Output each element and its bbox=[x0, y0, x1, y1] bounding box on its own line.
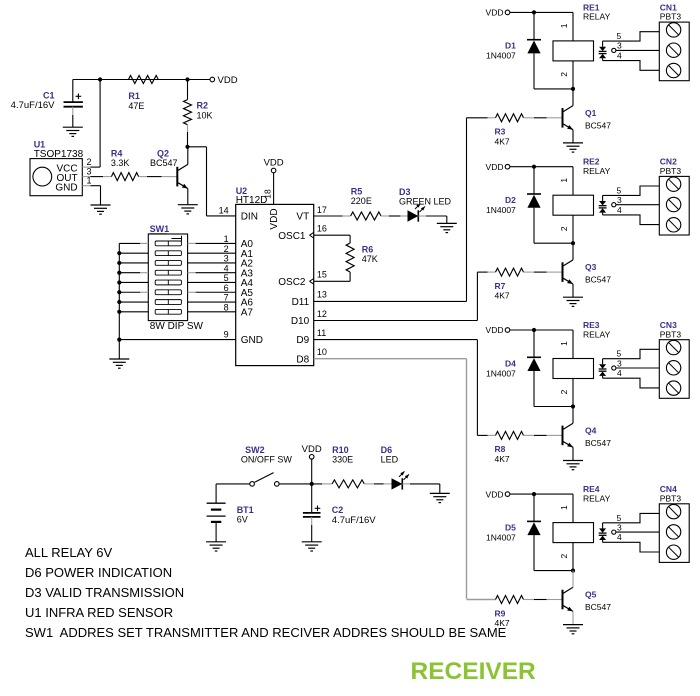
node VDD junction D diode bbox=[532, 165, 536, 169]
switch element SW1-2 bbox=[155, 251, 181, 256]
wire Q5 emitter to ground bbox=[572, 611, 574, 624]
wire Q2 collector bbox=[187, 147, 189, 165]
svg-text:15: 15 bbox=[317, 270, 327, 280]
svg-text:OSC2: OSC2 bbox=[278, 277, 306, 288]
svg-text:U1: U1 bbox=[34, 140, 46, 150]
terminal VDD power bbox=[309, 455, 314, 460]
svg-text:4: 4 bbox=[617, 368, 622, 378]
wire SW1 row 6 left bbox=[119, 291, 140, 293]
svg-text:DIN: DIN bbox=[241, 212, 258, 223]
wire contact pin 5 bbox=[603, 186, 660, 195]
IC U1 TSOP1738 sensor bbox=[30, 159, 82, 196]
svg-text:D11: D11 bbox=[292, 297, 310, 308]
wire Q4 emitter to ground bbox=[572, 447, 574, 460]
wire SW2 to VDD node bbox=[279, 483, 322, 485]
switch element SW1-3 bbox=[155, 261, 181, 266]
resistor R10 330E bbox=[322, 483, 332, 485]
svg-text:4K7: 4K7 bbox=[495, 291, 510, 301]
svg-text:6: 6 bbox=[224, 283, 229, 293]
wire SW1 row 6 to A5 bbox=[188, 291, 196, 293]
wire Q4 collector bbox=[572, 407, 574, 424]
svg-text:BC547: BC547 bbox=[585, 438, 611, 448]
svg-text:R9: R9 bbox=[495, 608, 506, 618]
relay RE3 coil bbox=[553, 359, 594, 379]
screw terminal 2 of CN4 bbox=[666, 525, 680, 539]
svg-text:1N4007: 1N4007 bbox=[486, 368, 516, 378]
capacitor C2 bbox=[311, 484, 313, 513]
svg-text:7: 7 bbox=[224, 293, 229, 303]
wire contact pin 5 bbox=[603, 513, 660, 522]
LED D6 power indicator bbox=[384, 483, 392, 485]
pin 3 OUT wire of U1 bbox=[82, 176, 90, 178]
svg-text:D2: D2 bbox=[505, 195, 516, 205]
terminal VDD pin 18 bbox=[271, 168, 276, 173]
svg-text:47E: 47E bbox=[128, 101, 144, 111]
relay RE4 contact arrows bbox=[602, 523, 604, 529]
svg-text:SW1 ADDRES SET TRANSMITTER AN: SW1 ADDRES SET TRANSMITTER AND RECIVER A… bbox=[25, 625, 507, 640]
resistor R5 bbox=[351, 212, 381, 220]
svg-text:10: 10 bbox=[317, 347, 327, 357]
svg-text:RELAY: RELAY bbox=[583, 493, 611, 503]
svg-text:220E: 220E bbox=[351, 196, 372, 206]
ground Q1 bbox=[563, 142, 583, 144]
svg-text:A7: A7 bbox=[241, 307, 254, 318]
resistor R4 bbox=[103, 176, 111, 178]
relay RE2 contact arrows bbox=[602, 195, 604, 201]
wire VDD to relay RE2 bbox=[510, 166, 573, 168]
wire VDD to relay RE3 bbox=[510, 329, 573, 331]
svg-text:VDD: VDD bbox=[218, 75, 238, 86]
switch SW2 ON/OFF bbox=[250, 482, 255, 487]
svg-text:3.3K: 3.3K bbox=[111, 158, 130, 168]
svg-text:ALL RELAY 6V: ALL RELAY 6V bbox=[25, 545, 113, 560]
svg-text:5: 5 bbox=[617, 31, 622, 41]
svg-text:Q2: Q2 bbox=[157, 148, 169, 158]
screw terminal 3 of CN4 bbox=[666, 545, 680, 559]
wire contact pin 4 bbox=[603, 215, 660, 225]
wire Q1 emitter to ground bbox=[572, 130, 574, 143]
svg-text:1: 1 bbox=[86, 175, 91, 185]
wire SW1 row 4 left bbox=[119, 272, 140, 274]
wire contact pin 3 bbox=[616, 204, 659, 206]
wire Q3 collector bbox=[572, 243, 574, 260]
svg-text:BC547: BC547 bbox=[150, 158, 178, 168]
wire SW1 row 1 left bbox=[119, 242, 140, 244]
svg-text:BT1: BT1 bbox=[237, 505, 254, 515]
svg-text:D1: D1 bbox=[505, 41, 516, 51]
svg-text:4.7uF/16V: 4.7uF/16V bbox=[332, 515, 376, 526]
svg-text:4: 4 bbox=[617, 51, 622, 61]
svg-text:R6: R6 bbox=[362, 245, 374, 255]
svg-text:330E: 330E bbox=[332, 455, 353, 465]
svg-text:PBT3: PBT3 bbox=[660, 166, 682, 176]
wire SW1 row 8 left bbox=[119, 311, 148, 313]
node junction R2 branch bbox=[185, 77, 189, 81]
LED D3 green bbox=[400, 215, 407, 217]
transistor Q2 BC547 bbox=[176, 167, 178, 187]
switch element SW1-4 bbox=[155, 270, 181, 275]
ground Q5 bbox=[563, 624, 583, 626]
wire D3 cathode to ground bbox=[418, 215, 426, 217]
transistor Q4 BC547 bbox=[562, 426, 564, 446]
wire Q3 emitter to ground bbox=[572, 284, 574, 297]
wire Q5 collector bbox=[572, 571, 574, 588]
capacitor C1 bbox=[72, 80, 74, 103]
wire top VDD rail bbox=[73, 79, 210, 81]
svg-text:D3: D3 bbox=[399, 187, 411, 197]
svg-text:R3: R3 bbox=[495, 127, 506, 137]
battery BT1 6V bbox=[215, 484, 217, 503]
diode D2 1N4007 bbox=[533, 167, 535, 194]
svg-text:3: 3 bbox=[617, 195, 622, 205]
svg-text:Q1: Q1 bbox=[585, 108, 597, 118]
relay RE2 coil bbox=[553, 195, 594, 215]
svg-text:VDD: VDD bbox=[302, 444, 322, 455]
node bus GND junction bbox=[117, 338, 121, 342]
svg-text:1: 1 bbox=[559, 341, 569, 346]
svg-text:TSOP1738: TSOP1738 bbox=[34, 149, 84, 160]
wire SW1 row 3 to A2 bbox=[188, 262, 236, 264]
wire contact pin 4 bbox=[603, 542, 660, 552]
wire SW1 row 8 to A7 bbox=[188, 311, 236, 313]
svg-text:D5: D5 bbox=[505, 522, 516, 532]
svg-text:SW2: SW2 bbox=[245, 445, 265, 455]
svg-text:BC547: BC547 bbox=[585, 602, 611, 612]
relay contact common terminal bbox=[612, 530, 616, 534]
ground D6 bbox=[430, 492, 450, 494]
svg-text:R2: R2 bbox=[197, 101, 209, 111]
wire D10 pin 12 to R7 bbox=[314, 320, 478, 322]
diode D5 1N4007 bbox=[533, 494, 535, 521]
wire D6 cathode to ground bbox=[402, 483, 410, 485]
resistor R7 4K7 bbox=[477, 271, 487, 273]
svg-text:C1: C1 bbox=[43, 90, 55, 100]
node VDD junction D diode bbox=[532, 328, 536, 332]
wire Q1 collector bbox=[572, 89, 574, 106]
screw terminal 3 of CN3 bbox=[666, 381, 680, 395]
wire VDD to relay RE1 bbox=[510, 11, 573, 13]
svg-text:R7: R7 bbox=[495, 281, 506, 291]
svg-text:4: 4 bbox=[617, 532, 622, 542]
svg-text:VDD: VDD bbox=[264, 158, 284, 169]
svg-text:RELAY: RELAY bbox=[583, 166, 611, 176]
wire contact pin 3 bbox=[616, 531, 659, 533]
svg-text:4: 4 bbox=[617, 205, 622, 215]
svg-text:47K: 47K bbox=[362, 254, 378, 264]
wire SW1 row 7 left bbox=[119, 301, 148, 303]
wire contact pin 5 bbox=[603, 32, 660, 41]
svg-text:4.7uF/16V: 4.7uF/16V bbox=[11, 100, 55, 111]
svg-text:3: 3 bbox=[224, 254, 229, 264]
switch element SW1-8 bbox=[155, 309, 181, 314]
transistor Q1 BC547 bbox=[562, 108, 564, 128]
svg-text:R1: R1 bbox=[128, 91, 140, 101]
wire contact pin 4 bbox=[603, 378, 660, 388]
svg-text:1N4007: 1N4007 bbox=[486, 51, 516, 61]
wire D8 pin 10 to R9 bbox=[314, 358, 467, 360]
svg-text:1: 1 bbox=[559, 23, 569, 28]
svg-text:3: 3 bbox=[617, 41, 622, 51]
wire contact pin 5 bbox=[603, 349, 660, 358]
wire contact pin 3 bbox=[616, 367, 659, 369]
svg-text:13: 13 bbox=[317, 290, 327, 300]
svg-text:PBT3: PBT3 bbox=[660, 12, 682, 22]
ground BT1 bbox=[206, 541, 226, 543]
relay contact common terminal bbox=[612, 48, 616, 52]
node junction C1/U1 branch bbox=[98, 77, 102, 81]
ground Q2 bbox=[178, 204, 198, 206]
svg-text:PBT3: PBT3 bbox=[660, 329, 682, 339]
svg-text:5: 5 bbox=[224, 273, 229, 283]
node VDD junction D diode bbox=[532, 492, 536, 496]
svg-text:VDD: VDD bbox=[269, 208, 280, 229]
svg-text:BC547: BC547 bbox=[585, 275, 611, 285]
svg-text:2: 2 bbox=[559, 226, 569, 231]
node relay pin2 junction bbox=[571, 569, 575, 573]
svg-text:8: 8 bbox=[224, 302, 229, 312]
pin 2 VCC wire of U1 bbox=[82, 166, 90, 168]
screw terminal 2 of CN2 bbox=[666, 197, 680, 211]
wire contact pin 4 bbox=[603, 61, 660, 71]
svg-text:SW1: SW1 bbox=[150, 224, 170, 234]
svg-text:10K: 10K bbox=[197, 110, 213, 120]
relay contact common terminal bbox=[612, 203, 616, 207]
svg-text:2: 2 bbox=[224, 244, 229, 254]
svg-text:GREEN LED: GREEN LED bbox=[399, 197, 452, 207]
svg-text:5: 5 bbox=[617, 513, 622, 523]
screw terminal 3 of CN2 bbox=[666, 218, 680, 232]
wire VDD to relay RE4 bbox=[510, 493, 573, 495]
svg-text:2: 2 bbox=[559, 553, 569, 558]
svg-text:1: 1 bbox=[559, 505, 569, 510]
svg-text:4K7: 4K7 bbox=[495, 454, 510, 464]
ground D3 bbox=[437, 222, 457, 224]
svg-text:R8: R8 bbox=[495, 444, 506, 454]
resistor R1 bbox=[128, 76, 158, 84]
node relay pin2 junction bbox=[571, 404, 575, 408]
ground C2 bbox=[302, 541, 322, 543]
svg-text:4K7: 4K7 bbox=[495, 136, 510, 146]
svg-text:12: 12 bbox=[317, 309, 327, 319]
wire D9 pin 11 to R8 bbox=[314, 339, 478, 341]
svg-text:R5: R5 bbox=[351, 186, 363, 196]
svg-text:BC547: BC547 bbox=[585, 120, 611, 130]
svg-text:8W DIP SW: 8W DIP SW bbox=[150, 321, 204, 332]
screw terminal 1 of CN3 bbox=[666, 340, 680, 354]
wire Q2 emitter to ground bbox=[187, 189, 189, 205]
switch element SW1-7 bbox=[155, 300, 181, 305]
svg-text:RELAY: RELAY bbox=[583, 12, 611, 22]
wire D11 pin 13 to R3 bbox=[314, 300, 467, 302]
terminal VDD top-left bbox=[210, 77, 215, 82]
node VDD junction D diode bbox=[532, 10, 536, 14]
svg-text:VT: VT bbox=[296, 212, 309, 223]
wire SW1 row 7 to A6 bbox=[188, 301, 236, 303]
wire SW1 row 3 left bbox=[119, 262, 148, 264]
wire VT pin 17 bbox=[314, 215, 343, 217]
screw terminal 3 of CN1 bbox=[666, 63, 680, 77]
screw terminal 1 of CN2 bbox=[666, 177, 680, 191]
ground Q3 bbox=[563, 296, 583, 298]
diode D4 1N4007 bbox=[533, 330, 535, 357]
svg-text:R10: R10 bbox=[332, 445, 349, 455]
svg-text:VDD: VDD bbox=[486, 162, 504, 172]
wire BT1 to SW2 bbox=[216, 483, 250, 485]
pin 1 GND wire of U1 bbox=[82, 185, 90, 187]
diode D1 1N4007 bbox=[533, 12, 535, 39]
svg-text:Q3: Q3 bbox=[585, 262, 597, 272]
svg-text:18: 18 bbox=[263, 189, 273, 199]
svg-text:OSC1: OSC1 bbox=[278, 231, 306, 242]
svg-text:11: 11 bbox=[317, 328, 326, 338]
svg-text:3: 3 bbox=[617, 522, 622, 532]
svg-text:D3 VALID TRANSMISSION: D3 VALID TRANSMISSION bbox=[25, 585, 184, 600]
svg-text:1N4007: 1N4007 bbox=[486, 532, 516, 542]
svg-text:17: 17 bbox=[317, 205, 327, 215]
svg-text:Q4: Q4 bbox=[585, 426, 597, 436]
wire SW1 ground bus bbox=[118, 243, 120, 359]
wire GND pin 9 of U2 bbox=[119, 339, 235, 341]
switch element SW1-6 bbox=[155, 290, 181, 295]
ground Q4 bbox=[563, 460, 583, 462]
ground SW1 bus bbox=[109, 358, 129, 360]
svg-text:1: 1 bbox=[559, 178, 569, 183]
switch element SW1-5 bbox=[155, 280, 181, 285]
wire C1 to ground bbox=[72, 107, 74, 115]
svg-text:1N4007: 1N4007 bbox=[486, 205, 516, 215]
screw terminal 1 of CN1 bbox=[666, 23, 680, 37]
svg-text:D4: D4 bbox=[505, 358, 516, 368]
wire SW1 row 2 to A1 bbox=[188, 252, 236, 254]
node VDD junction power bbox=[310, 482, 314, 486]
wire contact pin 3 bbox=[616, 49, 659, 51]
svg-text:RELAY: RELAY bbox=[583, 329, 611, 339]
svg-text:LED: LED bbox=[381, 455, 399, 465]
transistor Q5 BC547 bbox=[562, 590, 564, 610]
svg-text:6V: 6V bbox=[237, 515, 248, 525]
svg-text:VDD: VDD bbox=[486, 325, 504, 335]
switch element SW1-1 bbox=[155, 241, 181, 246]
svg-text:VDD: VDD bbox=[486, 489, 504, 499]
resistor R8 4K7 bbox=[477, 434, 487, 436]
resistor R3 4K7 bbox=[467, 117, 488, 119]
relay RE1 coil bbox=[553, 41, 594, 61]
IC U2 HT12D decoder bbox=[236, 204, 314, 365]
svg-text:RECEIVER: RECEIVER bbox=[411, 658, 537, 685]
wire Q2 collector to DIN pin 14 bbox=[188, 146, 207, 148]
svg-text:C2: C2 bbox=[332, 505, 344, 515]
svg-text:3: 3 bbox=[617, 358, 622, 368]
svg-text:D9: D9 bbox=[296, 335, 309, 346]
resistor R2 bbox=[187, 80, 189, 100]
node relay pin2 junction bbox=[571, 87, 575, 91]
svg-text:1: 1 bbox=[224, 234, 229, 244]
relay RE4 coil bbox=[553, 523, 594, 543]
svg-text:9: 9 bbox=[224, 330, 229, 340]
wire SW1 row 5 left bbox=[119, 281, 148, 283]
svg-text:4: 4 bbox=[224, 263, 229, 273]
svg-text:Q5: Q5 bbox=[585, 590, 597, 600]
svg-text:5: 5 bbox=[617, 349, 622, 359]
svg-text:R4: R4 bbox=[111, 148, 123, 158]
svg-text:2: 2 bbox=[559, 389, 569, 394]
screw terminal 2 of CN1 bbox=[666, 43, 680, 57]
wire SW1 row 1 to A0 bbox=[188, 242, 196, 244]
svg-text:U1 INFRA RED SENSOR: U1 INFRA RED SENSOR bbox=[25, 605, 173, 620]
svg-text:16: 16 bbox=[317, 224, 327, 234]
node Q2 collector junction bbox=[185, 145, 189, 149]
ground C1 bbox=[63, 126, 83, 128]
resistor R6 between OSC1 and OSC2 bbox=[314, 234, 350, 236]
resistor R9 4K7 bbox=[467, 599, 496, 601]
ground U1 bbox=[91, 204, 111, 206]
svg-text:14: 14 bbox=[219, 206, 229, 216]
svg-text:2: 2 bbox=[86, 157, 91, 167]
screw terminal 1 of CN4 bbox=[666, 504, 680, 518]
svg-text:GND: GND bbox=[55, 182, 77, 193]
relay contact common terminal bbox=[612, 366, 616, 370]
relay RE1 contact arrows bbox=[602, 41, 604, 47]
svg-text:D8: D8 bbox=[296, 354, 309, 365]
svg-text:2: 2 bbox=[559, 72, 569, 77]
transistor Q3 BC547 bbox=[562, 262, 564, 282]
wire SW1 row 5 to A4 bbox=[188, 281, 236, 283]
svg-text:D6: D6 bbox=[381, 445, 393, 455]
node relay pin2 junction bbox=[571, 241, 575, 245]
screw terminal 2 of CN3 bbox=[666, 361, 680, 375]
svg-text:D10: D10 bbox=[291, 316, 310, 327]
svg-text:ON/OFF SW: ON/OFF SW bbox=[241, 455, 292, 465]
svg-text:PBT3: PBT3 bbox=[660, 493, 682, 503]
svg-text:VDD: VDD bbox=[486, 8, 504, 18]
wire SW1 row 4 to A3 bbox=[188, 272, 196, 274]
svg-text:GND: GND bbox=[241, 335, 263, 346]
wire SW1 row 2 left bbox=[119, 252, 148, 254]
svg-text:5: 5 bbox=[617, 185, 622, 195]
svg-text:D6 POWER INDICATION: D6 POWER INDICATION bbox=[25, 565, 172, 580]
relay RE3 contact arrows bbox=[602, 359, 604, 365]
